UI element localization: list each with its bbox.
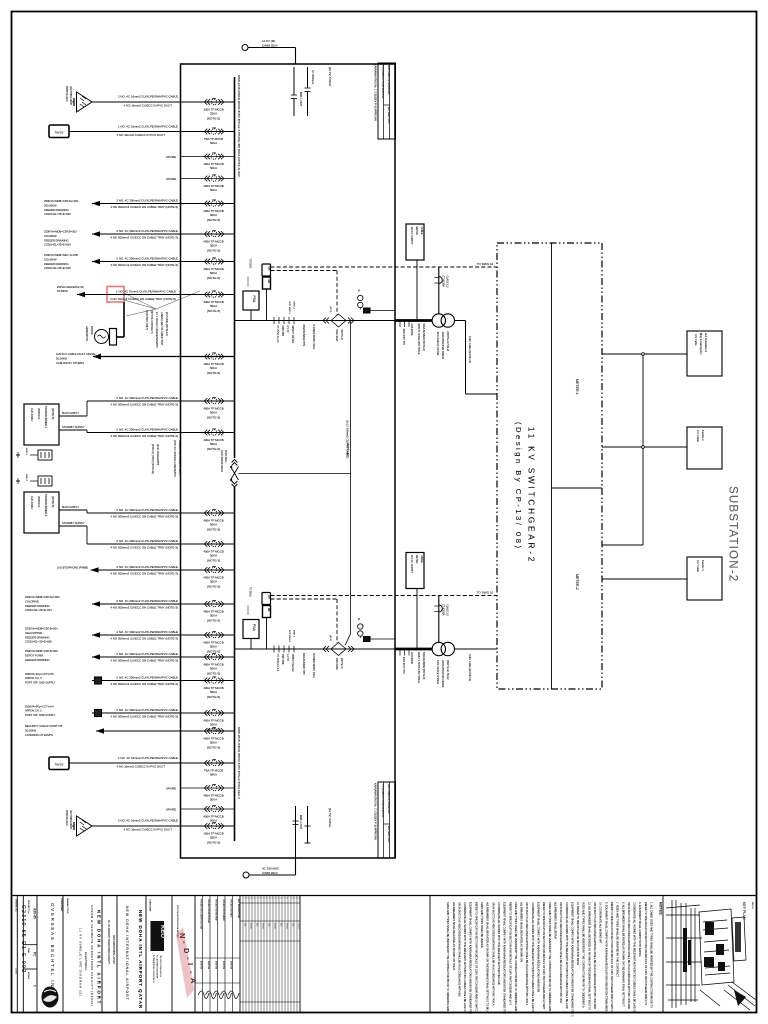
svg-text:[NOTE-5]: [NOTE-5]: [207, 371, 220, 375]
svg-text:Bldg & Switchg Rm: Bldg & Switchg Rm: [699, 333, 702, 354]
svg-text:APRON & TAXIWAYS OPERATIONS FA: APRON & TAXIWAYS OPERATIONS FACILITY (C2…: [90, 905, 94, 1006]
svg-text:GENERATOR: GENERATOR: [85, 326, 88, 341]
svg-text:50KA: 50KA: [210, 244, 217, 248]
svg-text:4C 300 MSC: 4C 300 MSC: [262, 867, 280, 871]
svg-text:4 NO 300mm2 CU/ECC ON CABLE TR: 4 NO 300mm2 CU/ECC ON CABLE TRAY (NOTE-3…: [110, 714, 178, 718]
svg-text:MDB-T1 4000A 415V TPN+E: MDB-T1 4000A 415V TPN+E: [417, 324, 420, 355]
svg-text:P.O. BOX 950 DOHA QATAR: P.O. BOX 950 DOHA QATAR: [156, 955, 159, 979]
svg-text:STANDBY SUPPLY: STANDBY SUPPLY: [62, 521, 85, 525]
svg-text:11 KV SWITCHGEAR-2: 11 KV SWITCHGEAR-2: [527, 427, 536, 564]
svg-text:1: 1: [243, 898, 245, 899]
svg-text:XXXXX: XXXXX: [261, 923, 263, 930]
svg-text:C2310=EL=35=E=004: C2310=EL=35=E=004: [25, 608, 52, 612]
svg-text:CABLES PER PHASE IN TRAY): CABLES PER PHASE IN TRAY): [178, 440, 181, 475]
svg-text:SPARE: SPARE: [166, 177, 176, 181]
svg-text:2 NO. 4C 300mm2 CU/XLPE/SWA/PV: 2 NO. 4C 300mm2 CU/XLPE/SWA/PVC CABLE: [116, 257, 178, 261]
svg-text:NEW DOHA INTERNATIONAL AIRPORT: NEW DOHA INTERNATIONAL AIRPORT: [176, 905, 179, 939]
svg-text:SIZES AND TYPES SHALL BE VERIF: SIZES AND TYPES SHALL BE VERIFIED BY THE…: [582, 902, 586, 1008]
svg-text:4 NO 16mm2 CU/ECC IN PVC DUCT: 4 NO 16mm2 CU/ECC IN PVC DUCT: [117, 133, 166, 137]
svg-text:11KV Cable (NOTE-10): 11KV Cable (NOTE-10): [468, 336, 472, 363]
svg-text:REFER TO SPECIFICATION SECTION: REFER TO SPECIFICATION SECTION FOR DETAI…: [610, 902, 614, 1012]
svg-text:DRAWING TITLE: DRAWING TITLE: [66, 898, 69, 914]
svg-text:4 NO 300mm2 CU/ECC ON CABLE TR: 4 NO 300mm2 CU/ECC ON CABLE TRAY (NOTE-3…: [110, 571, 178, 575]
svg-text:NEW DOHA INTERNATIONAL AIRPORT: NEW DOHA INTERNATIONAL AIRPORT: [125, 906, 129, 1001]
svg-text:50KA: 50KA: [210, 411, 217, 415]
svg-text:50.00KW: 50.00KW: [25, 728, 37, 732]
svg-text:ISSUED FOR REVIEW: ISSUED FOR REVIEW: [215, 899, 217, 921]
svg-text:(NOTE-4): (NOTE-4): [340, 658, 343, 669]
svg-text:50KA: 50KA: [210, 304, 217, 308]
svg-text:7. SIZES AND TYPES SHALL BE VE: 7. SIZES AND TYPES SHALL BE VERIFIED BY …: [616, 902, 620, 978]
svg-text:4 NO 300mm2 CU/ECC ON CABLE TR: 4 NO 300mm2 CU/ECC ON CABLE TRAY (NOTE-3…: [110, 658, 178, 662]
svg-text:MDB/CT METER: MDB/CT METER: [291, 654, 293, 672]
svg-text:M: M: [357, 290, 360, 292]
svg-text:N: N: [178, 933, 187, 938]
svg-text:50KA: 50KA: [210, 141, 217, 145]
svg-text:KAHRAMAA DWG No. C-1 35/11KV P: KAHRAMAA DWG No. C-1 35/11KV P-10 APPROV…: [374, 64, 377, 122]
svg-text:02/07/08: 02/07/08: [200, 961, 202, 970]
svg-text:TO DWG 10: TO DWG 10: [477, 262, 494, 266]
svg-text:(FOR INFO ONLY): (FOR INFO ONLY): [145, 310, 148, 330]
svg-text:50KA: 50KA: [210, 554, 217, 558]
svg-text:02/07/08: 02/07/08: [222, 961, 224, 970]
svg-text:2000/2500KVA ONAN: 2000/2500KVA ONAN: [441, 660, 445, 687]
svg-text:KWH MDI: KWH MDI: [281, 654, 283, 665]
svg-text:50KA: 50KA: [210, 645, 217, 649]
svg-text:50KA: 50KA: [210, 819, 217, 823]
svg-text:7: 7: [288, 898, 290, 899]
svg-text:50KA: 50KA: [210, 741, 217, 745]
svg-text:2000 KVA: 2000 KVA: [37, 496, 41, 508]
svg-text:METER: METER: [415, 227, 418, 236]
svg-text:MSB-2B BUSBAR 4000A 415V TPN+E: MSB-2B BUSBAR 4000A 415V TPN+E 50KA SEC-…: [237, 727, 241, 799]
svg-text:MF: MF: [267, 280, 271, 284]
svg-text:5: 5: [282, 898, 284, 899]
svg-text:2 NO. 4C 300mm2 CU/XLPE/SWA/PV: 2 NO. 4C 300mm2 CU/XLPE/SWA/PVC CABLE: [116, 396, 178, 400]
svg-text:TRANSFORMER-2: TRANSFORMER-2: [44, 494, 48, 517]
svg-text:ISSUED FOR CONSTRUCTION: ISSUED FOR CONSTRUCTION: [200, 899, 202, 930]
svg-text:50KA: 50KA: [210, 188, 217, 192]
svg-text:RMU 630A: RMU 630A: [335, 658, 338, 670]
svg-text:FEEDER DRAWING: FEEDER DRAWING: [44, 238, 69, 242]
svg-text:APRON CH. 2: APRON CH. 2: [25, 709, 42, 713]
svg-text:6. ALL BREAKERS SHALL BE RATED: 6. ALL BREAKERS SHALL BE RATED AS SHOWN …: [621, 902, 625, 1007]
svg-text:50KA: 50KA: [210, 166, 217, 170]
svg-text:(TWO 1/C 300mm2 CU/XLPE/PVC: (TWO 1/C 300mm2 CU/XLPE/PVC: [173, 440, 176, 477]
svg-text:Feeder-3: Feeder-3: [701, 560, 705, 571]
svg-text:[NOTE-5]: [NOTE-5]: [207, 447, 220, 451]
svg-text:CABLING BY OTHERS: CABLING BY OTHERS: [56, 361, 84, 365]
svg-text:(NOTE-8): (NOTE-8): [51, 408, 55, 419]
svg-text:4 NO 16mm2 CU/ECC IN PVC DUCT: 4 NO 16mm2 CU/ECC IN PVC DUCT: [124, 827, 173, 831]
svg-text:SUBSTATION-2: SUBSTATION-2: [727, 486, 739, 582]
svg-text:(NOTE-4): (NOTE-4): [340, 330, 343, 341]
svg-text:2000/2500KVA ONAN: 2000/2500KVA ONAN: [441, 332, 445, 359]
svg-text:50KA BUSBAR (NOTE-6): 50KA BUSBAR (NOTE-6): [422, 652, 425, 679]
svg-text:11/0.433KV DYN11: 11/0.433KV DYN11: [436, 332, 440, 356]
svg-text:REFER TO SPECIFICATION SECTION: REFER TO SPECIFICATION SECTION FOR DETAI…: [644, 902, 648, 1005]
svg-text:KEY DIAG. SS-2: KEY DIAG. SS-2: [387, 107, 390, 124]
svg-text:11/0.433KV DYN11: 11/0.433KV DYN11: [436, 660, 440, 684]
svg-text:ISSUED FOR APPROVAL: ISSUED FOR APPROVAL: [207, 899, 210, 924]
svg-text:EQUIPMENT SHALL COMPLY WITH KA: EQUIPMENT SHALL COMPLY WITH KAHRAMAA REG…: [570, 902, 574, 1017]
svg-text:SUBSTATION-2 P-10 KAHRAMAA APP: SUBSTATION-2 P-10 KAHRAMAA APP: [393, 65, 396, 104]
svg-text:MF: MF: [267, 608, 271, 612]
svg-text:11/0.4KV CABLE FAULT SIGNAL: 11/0.4KV CABLE FAULT SIGNAL: [56, 352, 96, 356]
svg-text:1. ALL CABLE SIZES AND TYPES S: 1. ALL CABLE SIZES AND TYPES SHALL BE VE…: [650, 902, 654, 1008]
svg-text:2 NO. 4C 300mm2 CU/XLPE/SWA/PV: 2 NO. 4C 300mm2 CU/XLPE/SWA/PVC CABLE: [116, 708, 178, 712]
svg-text:TAVSS: TAVSS: [55, 130, 64, 134]
svg-text:(Design By CP-13/ 08): (Design By CP-13/ 08): [514, 422, 523, 550]
svg-text:XXXXX: XXXXX: [285, 923, 287, 930]
svg-text:MTR KWH-1: MTR KWH-1: [288, 302, 290, 315]
svg-text:250KVA=MDB=CDF.B=004: 250KVA=MDB=CDF.B=004: [25, 627, 58, 631]
svg-text:EQUIPMENT SHALL COMPLY WITH KA: EQUIPMENT SHALL COMPLY WITH KAHRAMAA REG…: [469, 902, 473, 1014]
svg-text:8: 8: [291, 898, 293, 899]
svg-text:50KA: 50KA: [210, 271, 217, 275]
svg-text:PSA: PSA: [252, 296, 256, 304]
svg-text:4 NO 16mm2 CU/ECC IN PVC DUCT: 4 NO 16mm2 CU/ECC IN PVC DUCT: [117, 765, 166, 769]
svg-text:4 NO 300mm2 CU/ECC ON CABLE TR: 4 NO 300mm2 CU/ECC ON CABLE TRAY (NOTE-3…: [110, 605, 178, 609]
svg-text:6: 6: [285, 898, 287, 899]
svg-text:(2x1C 300mm2/PH): (2x1C 300mm2/PH): [156, 444, 159, 465]
svg-text:NEW DOHA INTL AIRPORT QATAR: NEW DOHA INTL AIRPORT QATAR: [138, 910, 143, 1009]
svg-text:HELICOPTER: HELICOPTER: [25, 631, 42, 635]
svg-text:FEEDER DRAWING: FEEDER DRAWING: [44, 208, 69, 212]
svg-text:CABLE: CABLE: [420, 555, 423, 563]
svg-text:50KA: 50KA: [210, 798, 217, 802]
svg-text:KAHRAMAA DWG No. C-1 35/11KV P: KAHRAMAA DWG No. C-1 35/11KV P-10 APPROV…: [374, 783, 377, 841]
svg-text:A V PF: A V PF: [286, 654, 289, 662]
svg-text:TO DWG 10: TO DWG 10: [477, 591, 494, 595]
svg-text:9: 9: [294, 898, 296, 899]
svg-text:(FUTURE) (NOTE-12): (FUTURE) (NOTE-12): [165, 312, 168, 336]
svg-text:RMU 630A: RMU 630A: [335, 330, 338, 342]
svg-text:50KA: 50KA: [210, 614, 217, 618]
svg-text:STANDBY SUPPLY: STANDBY SUPPLY: [62, 425, 85, 429]
svg-text:OR IN DUCTS AS INDICATED EARTH: OR IN DUCTS AS INDICATED EARTHING SHALL …: [491, 902, 495, 1006]
svg-text:4C 300mm2: 4C 300mm2: [311, 70, 315, 85]
svg-text:CABLE: CABLE: [420, 227, 423, 235]
svg-text:1 NO. 4C 70mm2 CU/XLPE/SWA/PVC: 1 NO. 4C 70mm2 CU/XLPE/SWA/PVC CABLE: [116, 290, 176, 294]
svg-text:CT 400/5A: CT 400/5A: [442, 604, 445, 616]
svg-text:630A BUSBAR TPN: 630A BUSBAR TPN: [302, 325, 305, 347]
svg-text:CLASS 1.0: CLASS 1.0: [446, 276, 449, 288]
svg-text:D: D: [182, 948, 191, 954]
svg-text:(11 KV) CABLE: (11 KV) CABLE: [328, 808, 332, 827]
svg-text:KWH MDI: KWH MDI: [281, 326, 283, 337]
svg-text:C/MM 2014: C/MM 2014: [262, 871, 278, 875]
svg-text:160.00KW: 160.00KW: [44, 234, 57, 238]
svg-text:50.00KW: 50.00KW: [56, 356, 68, 360]
svg-text:4 NO 300mm2 CU/ECC ON CABLE TR: 4 NO 300mm2 CU/ECC ON CABLE TRAY (NOTE-3…: [110, 402, 178, 406]
svg-text:4 NO 300mm2 CU/ECC ON CABLE TR: 4 NO 300mm2 CU/ECC ON CABLE TRAY (NOTE-3…: [110, 235, 178, 239]
svg-text:11V DC SUPPLY: 11V DC SUPPLY: [410, 555, 413, 574]
svg-text:50KA: 50KA: [210, 723, 217, 727]
svg-text:4 NO 16mm2 CU/ECC IN PVC DUCT: 4 NO 16mm2 CU/ECC IN PVC DUCT: [124, 103, 173, 107]
svg-text:CATERING UP 2MVPS: CATERING UP 2MVPS: [25, 733, 53, 737]
svg-text:M: M: [357, 618, 360, 620]
svg-text:12. ALL BREAKERS SHALL BE RATE: 12. ALL BREAKERS SHALL BE RATED AS SHOWN…: [587, 902, 591, 1010]
svg-text:SECURITY CHECK POINT=25: SECURITY CHECK POINT=25: [25, 724, 63, 728]
svg-text:2 NO. 4C 300mm2 CU/XLPE/SWA/PV: 2 NO. 4C 300mm2 CU/XLPE/SWA/PVC CABLE: [116, 599, 178, 603]
svg-text:2: 2: [273, 898, 275, 899]
svg-text:11V Cable: 11V Cable: [696, 430, 700, 442]
svg-text:25KA: 25KA: [210, 112, 217, 116]
svg-text:ACB 4000A: ACB 4000A: [410, 324, 413, 336]
svg-text:DEPOT FORM: DEPOT FORM: [25, 653, 44, 657]
svg-text:[NOTE-5]: [NOTE-5]: [207, 672, 220, 676]
svg-text:25KA: 25KA: [210, 836, 217, 840]
svg-text:[NOTE-5]: [NOTE-5]: [207, 416, 220, 420]
svg-text:KEY DIAG. SS-2: KEY DIAG. SS-2: [387, 826, 390, 843]
svg-text:DRAWING No.: DRAWING No.: [15, 899, 18, 913]
svg-text:SIZES AND TYPES SHALL BE VERIF: SIZES AND TYPES SHALL BE VERIFIED BY THE…: [446, 902, 450, 1011]
svg-text:4C x 70mm2 CU/XLPE/SWA/PVC: 4C x 70mm2 CU/XLPE/SWA/PVC: [155, 312, 158, 348]
svg-text:KWH-2: KWH-2: [293, 302, 295, 310]
svg-text:C2310=EL=35=E=005: C2310=EL=35=E=005: [44, 266, 71, 270]
svg-text:PC: PC: [33, 952, 37, 957]
svg-text:(NOTE-9) 50HZ: (NOTE-9) 50HZ: [446, 660, 450, 680]
svg-text:[NOTE-5]: [NOTE-5]: [207, 746, 220, 750]
svg-text:CABLE LAID ON CABLE TRAY: CABLE LAID ON CABLE TRAY: [160, 312, 163, 346]
svg-text:T.C.L DWG No. C2310-65-E1-P10: T.C.L DWG No. C2310-65-E1-P10: [381, 65, 383, 99]
svg-text:25MM CU/ECC: 25MM CU/ECC: [65, 86, 67, 102]
svg-text:[NOTE-5]: [NOTE-5]: [207, 309, 220, 313]
svg-text:4: 4: [279, 898, 281, 899]
svg-text:FEEDER DRAWING: FEEDER DRAWING: [44, 262, 69, 266]
svg-text:PSA: PSA: [252, 624, 256, 632]
svg-text:TO DWG: TO DWG: [249, 587, 252, 597]
svg-text:CLASS 1.0: CLASS 1.0: [446, 604, 449, 616]
svg-text:C2310=EL=35=E=002: C2310=EL=35=E=002: [44, 212, 71, 216]
svg-text:METER-2: METER-2: [575, 574, 579, 590]
svg-text:METER: METER: [415, 555, 418, 564]
svg-text:SIZES AND TYPES SHALL BE VERIF: SIZES AND TYPES SHALL BE VERIFIED BY THE…: [548, 902, 552, 1013]
svg-text:50KA: 50KA: [210, 442, 217, 446]
svg-text:ALL BREAKERS SHALL BE RATED AS: ALL BREAKERS SHALL BE RATED AS SHOWN ON …: [452, 902, 456, 970]
svg-text:4 NO 300mm2 CU/ECC ON CABLE TR: 4 NO 300mm2 CU/ECC ON CABLE TRAY (NOTE-3…: [110, 682, 178, 686]
svg-text:N DINER MDB/C WDG: N DINER MDB/C WDG: [312, 653, 315, 678]
svg-text:4 NO 300mm2 CU/ECC ON CABLE TR: 4 NO 300mm2 CU/ECC ON CABLE TRAY (NOTE-3…: [110, 263, 178, 267]
svg-text:C2310: C2310: [15, 968, 17, 975]
svg-text:SUBSTATION-2 P-10 KAHRAMAA APP: SUBSTATION-2 P-10 KAHRAMAA APP: [393, 784, 396, 823]
svg-text:LIGHTNING MAST: LIGHTNING MAST: [69, 810, 72, 830]
svg-text:250KVA=MDB=CDF.Kw=001: 250KVA=MDB=CDF.Kw=001: [44, 199, 79, 203]
svg-text:2 NO. 4C 300mm2 CU/XLPE/SWA/PV: 2 NO. 4C 300mm2 CU/XLPE/SWA/PVC CABLE: [116, 676, 178, 680]
svg-text:8: 8: [264, 898, 266, 899]
svg-text:11/0.433KV: 11/0.433KV: [30, 496, 34, 510]
svg-text:XXXXX: XXXXX: [273, 923, 275, 930]
svg-text:4: 4: [252, 898, 254, 899]
svg-text:500KVA: 500KVA: [90, 326, 93, 335]
svg-text:2 NO. 4C 300mm2 CU/XLPE/SWA/PV: 2 NO. 4C 300mm2 CU/XLPE/SWA/PVC CABLE: [116, 565, 178, 569]
svg-text:1: 1: [297, 898, 299, 899]
svg-text:TO DWG: TO DWG: [249, 259, 252, 269]
svg-text:FEEDER DRAWING: FEEDER DRAWING: [25, 604, 50, 608]
svg-text:PORT OFF CMD SUPPLY: PORT OFF CMD SUPPLY: [25, 713, 56, 717]
svg-text:LIGHTNING MAST: LIGHTNING MAST: [69, 86, 72, 106]
svg-text:REFER TO SPECIFICATION SECTION: REFER TO SPECIFICATION SECTION FOR DETAI…: [508, 902, 512, 1005]
svg-text:DB: DB: [267, 595, 271, 599]
svg-text:[NOTE-5]: [NOTE-5]: [207, 117, 220, 121]
svg-text:NGR-1: NGR-1: [25, 448, 27, 456]
svg-text:250KVA=FKp=CCTV=04: 250KVA=FKp=CCTV=04: [25, 705, 54, 709]
svg-text:7: 7: [261, 898, 263, 899]
svg-text:LVS BTS/PHONE (PW88): LVS BTS/PHONE (PW88): [57, 566, 88, 570]
svg-text:4 NO 300mm2 CU/ECC ON CABLE TR: 4 NO 300mm2 CU/ECC ON CABLE TRAY (NOTE-3…: [110, 514, 178, 518]
svg-text:TAVSS: TAVSS: [55, 762, 64, 766]
svg-text:02/07/08: 02/07/08: [230, 961, 232, 970]
svg-text:2 NO. 4C 300mm2 CU/XLPE/SWA/PV: 2 NO. 4C 300mm2 CU/XLPE/SWA/PVC CABLE: [116, 508, 178, 512]
svg-text:TRANSFORMER-1: TRANSFORMER-1: [44, 406, 48, 429]
svg-text:EQUIPMENT SHALL COMPLY WITH KA: EQUIPMENT SHALL COMPLY WITH KAHRAMAA REG…: [537, 902, 541, 992]
svg-text:1: 1: [270, 898, 272, 899]
svg-text:4 NO 300mm2 CU/ECC ON CABLE TR: 4 NO 300mm2 CU/ECC ON CABLE TRAY (NOTE-3…: [110, 205, 178, 209]
svg-text:DWN: DWN: [27, 948, 29, 954]
svg-text:2 NO. 4C 300mm2 CU/XLPE/SWA/PV: 2 NO. 4C 300mm2 CU/XLPE/SWA/PVC CABLE: [116, 652, 178, 656]
svg-text:(FOR LV) (TWO) (NOTE-11): (FOR LV) (TWO) (NOTE-11): [151, 444, 154, 474]
svg-text:150KVA=MDB=SEC=G=005: 150KVA=MDB=SEC=G=005: [44, 253, 79, 257]
svg-text:KEO: KEO: [159, 925, 165, 938]
svg-text:I: I: [186, 963, 195, 965]
svg-text:T.C.L DWG No. C2310-65-E1-P10: T.C.L DWG No. C2310-65-E1-P10: [381, 784, 383, 818]
svg-text:11V Cable: 11V Cable: [694, 334, 697, 346]
svg-text:N DINER MDB/C WDG: N DINER MDB/C WDG: [312, 325, 315, 350]
svg-text:50KA BUSBAR (NOTE-6): 50KA BUSBAR (NOTE-6): [422, 324, 425, 351]
svg-text:METER-1: METER-1: [575, 379, 579, 395]
svg-text:[NOTE-5]: [NOTE-5]: [207, 695, 220, 699]
svg-text:FEEDER DRAWING: FEEDER DRAWING: [25, 658, 50, 662]
svg-text:OR IN DUCTS AS INDICATED EARTH: OR IN DUCTS AS INDICATED EARTHING SHALL …: [559, 902, 563, 1004]
svg-text:DB: DB: [267, 267, 271, 271]
svg-text:[NOTE-5]: [NOTE-5]: [207, 528, 220, 532]
svg-text:OR IN DUCTS AS INDICATED EARTH: OR IN DUCTS AS INDICATED EARTHING SHALL …: [457, 902, 461, 997]
svg-text:ALL BREAKERS SHALL BE RAT: ALL BREAKERS SHALL BE RAT: [553, 902, 557, 940]
svg-text:A V PF: A V PF: [286, 326, 289, 334]
svg-text:(NOT IN CONTRACT): (NOT IN CONTRACT): [150, 310, 153, 334]
svg-text:02/07/08: 02/07/08: [207, 961, 209, 970]
svg-text:11KV CABLE NETWORK KEY: 11KV CABLE NETWORK KEY: [387, 65, 390, 95]
svg-text:MAIN SUPPLY: MAIN SUPPLY: [62, 411, 80, 415]
svg-text:3. EQUIPMENT SHALL COMPLY WITH: 3. EQUIPMENT SHALL COMPLY WITH KAHRA: [638, 902, 642, 957]
svg-text:TEL 4432221 FAX 4432224: TEL 4432221 FAX 4432224: [159, 955, 162, 977]
svg-text:MAIN SUPPLY: MAIN SUPPLY: [62, 505, 80, 509]
svg-text:1 NO. 4C 16mm2 CU/XLPE/SWA/PVC: 1 NO. 4C 16mm2 CU/XLPE/SWA/PVC CABLE: [118, 124, 178, 128]
svg-text:200.00KW: 200.00KW: [44, 203, 57, 207]
svg-text:11 KV SINGLE LINE DIAGRAM (2): 11 KV SINGLE LINE DIAGRAM (2): [79, 928, 83, 996]
svg-text:250KVA=MDB=CDF.Kw=002: 250KVA=MDB=CDF.Kw=002: [25, 595, 60, 599]
svg-text:ALL BREAKERS SHALL BE RATED AS: ALL BREAKERS SHALL BE RATED AS SHOWN ON …: [486, 902, 490, 1013]
svg-text:9. EQUIPMENT SHALL COMPLY WITH: 9. EQUIPMENT SHALL COMPLY WITH KAHRAMAA …: [604, 902, 608, 1012]
svg-text:2: 2: [246, 898, 248, 899]
svg-text:PROJECT No.: PROJECT No.: [27, 900, 29, 915]
svg-text:XXXXX: XXXXX: [297, 923, 299, 930]
svg-text:400A 415V TPN: 400A 415V TPN: [402, 657, 405, 674]
svg-text:ACB 4000A 50KA: ACB 4000A 50KA: [220, 450, 224, 472]
svg-text:CONSULTANT: CONSULTANT: [149, 899, 152, 912]
svg-text:[NOTE-5]: [NOTE-5]: [207, 841, 220, 845]
svg-text:OVERSEAS BECHTEL INC.: OVERSEAS BECHTEL INC.: [50, 903, 55, 996]
svg-text:(NOTE-8): (NOTE-8): [51, 496, 55, 507]
svg-text:2 NO. 4C 300mm2 CU/XLPE/SWA/PV: 2 NO. 4C 300mm2 CU/XLPE/SWA/PVC CABLE: [116, 428, 178, 432]
svg-text:2 NO. 4C 16mm2 CU/XLPE/SWA/PVC: 2 NO. 4C 16mm2 CU/XLPE/SWA/PVC CABLE: [118, 95, 178, 99]
svg-text:C2310-65-E1-E-002: C2310-65-E1-E-002: [20, 905, 26, 974]
svg-text:[NOTE-5]: [NOTE-5]: [207, 650, 220, 654]
svg-text:54.00KW: 54.00KW: [57, 289, 68, 293]
svg-text:[NOTE-5]: [NOTE-5]: [207, 218, 220, 222]
svg-text:MSB-2A BUSBAR 4000A 415V TPN+E: MSB-2A BUSBAR 4000A 415V TPN+E 3 PHASE 4…: [237, 75, 241, 178]
svg-text:SPARE: SPARE: [166, 787, 176, 791]
svg-text:2 NO. 4C 300mm2 CU/XLPE/SWA/PV: 2 NO. 4C 300mm2 CU/XLPE/SWA/PVC CABLE: [116, 539, 178, 543]
svg-text:NGR-2: NGR-2: [25, 474, 27, 482]
svg-text:02/07/08: 02/07/08: [215, 961, 217, 970]
svg-text:3: 3: [276, 898, 278, 899]
svg-text:BUS-SEC: BUS-SEC: [224, 450, 228, 462]
svg-text:COORDINATE ALL WORKS WITH THE: COORDINATE ALL WORKS WITH THE RELEVANT A…: [463, 902, 467, 1011]
svg-text:250KVA=MDB=CDF.B=003: 250KVA=MDB=CDF.B=003: [44, 230, 77, 234]
svg-text:5: 5: [255, 898, 257, 899]
svg-text:NOTES:: NOTES:: [659, 902, 663, 916]
svg-text:6: 6: [258, 898, 260, 899]
svg-text:400A 415V TPN: 400A 415V TPN: [402, 329, 405, 346]
svg-text:FEEDER DRAWING: FEEDER DRAWING: [25, 635, 50, 639]
svg-text:50KA: 50KA: [210, 366, 217, 370]
svg-text:[NOTE-5]: [NOTE-5]: [207, 585, 220, 589]
svg-text:REFER TO SPECIFICATION SECTION: REFER TO SPECIFICATION SECTION FOR DETAI…: [474, 902, 478, 1012]
svg-text:SCALE: SCALE: [27, 972, 30, 980]
svg-text:11KV Cable (NOTE-10): 11KV Cable (NOTE-10): [468, 654, 472, 681]
svg-text:2 NO. 4C 16mm2 CU/XLPE/SWA/PVC: 2 NO. 4C 16mm2 CU/XLPE/SWA/PVC CABLE: [118, 819, 178, 823]
svg-text:MDB-T1 4000A 415V TPN+E: MDB-T1 4000A 415V TPN+E: [417, 652, 420, 683]
svg-text:50KA: 50KA: [210, 580, 217, 584]
svg-text:3: 3: [249, 898, 251, 899]
svg-text:(AT-3): (AT-3): [329, 635, 332, 641]
svg-text:CT-75/5A CL-0.5: CT-75/5A CL-0.5: [276, 326, 279, 344]
svg-text:2000 KVA: 2000 KVA: [37, 408, 41, 420]
svg-text:11V Cable: 11V Cable: [696, 560, 700, 572]
svg-text:AND SUBSTATION LAYOUT: AND SUBSTATION LAYOUT: [112, 935, 115, 965]
svg-text:MTR KWH-1: MTR KWH-1: [288, 630, 290, 643]
svg-text:2 NO. 4C 300mm2 CU/XLPE/SWA/PV: 2 NO. 4C 300mm2 CU/XLPE/SWA/PVC CABLE: [116, 229, 178, 233]
svg-text:9: 9: [267, 898, 269, 899]
svg-text:C/MM 2014: C/MM 2014: [262, 44, 278, 48]
svg-text:OR IN DUCTS AS INDICATED EARTH: OR IN DUCTS AS INDICATED EARTHING SHALL …: [525, 902, 529, 1006]
svg-text:[NOTE-5]: [NOTE-5]: [207, 276, 220, 280]
svg-text:250KVA=MDB=CDF.B=006: 250KVA=MDB=CDF.B=006: [25, 649, 58, 653]
svg-text:MDB/CT METER: MDB/CT METER: [291, 326, 293, 344]
svg-text:INTERNATIONAL CONSULTANTS: INTERNATIONAL CONSULTANTS: [152, 955, 155, 984]
svg-text:50KA: 50KA: [210, 690, 217, 694]
svg-text:EQUIPMENT SHALL COMPLY WITH KA: EQUIPMENT SHALL COMPLY WITH KAHRAMAA REG…: [503, 902, 507, 1014]
svg-text:REV 4: REV 4: [751, 902, 753, 909]
svg-text:SPARE: SPARE: [166, 155, 176, 159]
svg-text:BMT-1 CMT: BMT-1 CMT: [299, 92, 303, 106]
svg-text:Feeder-2: Feeder-2: [701, 430, 705, 441]
svg-text:50KA: 50KA: [210, 667, 217, 671]
svg-text:XXXXX: XXXXX: [249, 923, 251, 930]
svg-text:4 NO 70mm2 CU/ECC ON CABLE TRA: 4 NO 70mm2 CU/ECC ON CABLE TRAY (NOTE-5): [110, 297, 176, 301]
svg-text:(NOTE-9) 50HZ: (NOTE-9) 50HZ: [446, 332, 450, 352]
svg-text:4 NO 300mm2 CU/ECC ON CABLE TR: 4 NO 300mm2 CU/ECC ON CABLE TRAY (NOTE-3…: [110, 434, 178, 438]
svg-text:50KA: 50KA: [210, 773, 217, 777]
svg-text:No. OF AIRPORT OPERATIONS FACI: No. OF AIRPORT OPERATIONS FACILITY: [107, 920, 110, 965]
svg-text:CT 400/5A: CT 400/5A: [442, 276, 445, 288]
svg-text:and Substation-4: and Substation-4: [704, 333, 707, 353]
svg-text:C2310=EL=35=E=003: C2310=EL=35=E=003: [44, 243, 71, 247]
svg-text:CT-75/5A CL-0.5: CT-75/5A CL-0.5: [276, 654, 279, 672]
svg-text:[NOTE-5]: [NOTE-5]: [207, 249, 220, 253]
